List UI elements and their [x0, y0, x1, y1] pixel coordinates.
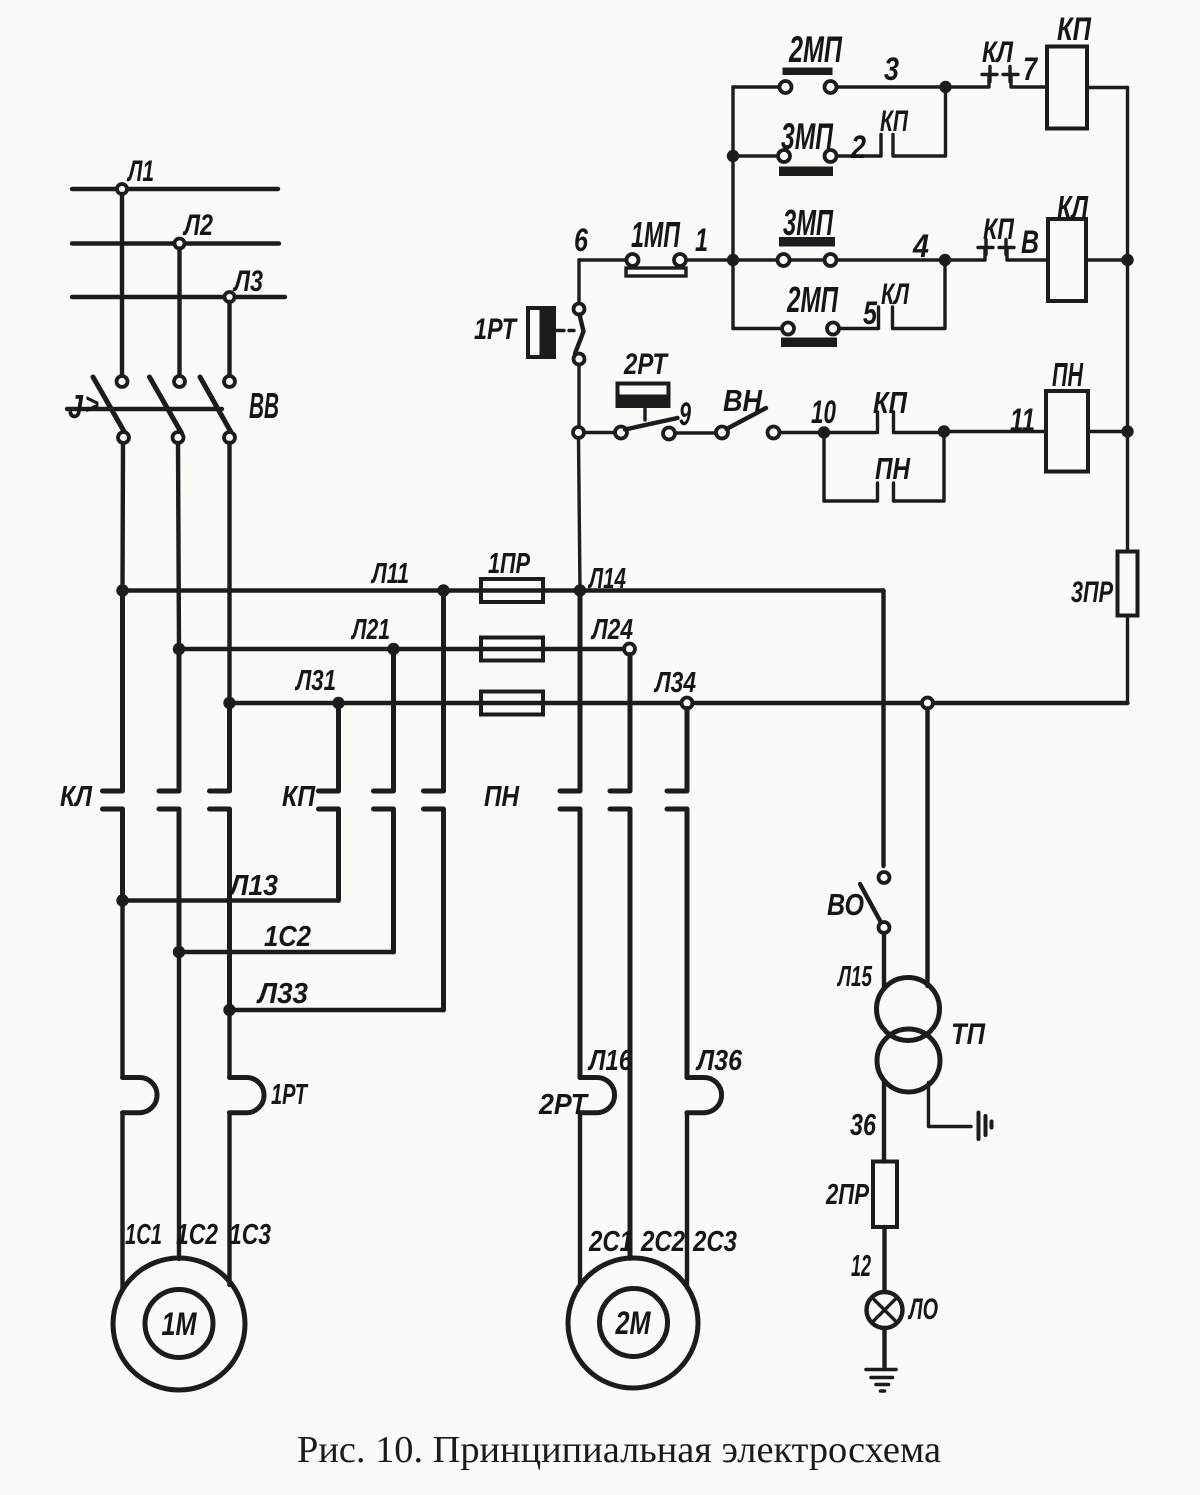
svg-text:КП: КП	[873, 385, 908, 420]
svg-text:Л3: Л3	[232, 265, 263, 298]
svg-text:3МП: 3МП	[783, 202, 834, 243]
transformer ТП secondary	[877, 1029, 940, 1092]
junction Л31/КП pole1	[332, 697, 344, 709]
pushbutton 1МП bar	[626, 268, 686, 276]
node row5 corner terminal	[573, 427, 584, 438]
junction Л13/pole1	[116, 894, 128, 906]
svg-text:10: 10	[811, 394, 836, 430]
breaker ВВ pole2 bottom contact	[173, 432, 184, 443]
contact КЛ row1	[946, 67, 1048, 88]
bus Л1	[72, 187, 278, 191]
wire Л13	[123, 898, 339, 902]
wire row1 east	[837, 85, 941, 88]
transformer ТП primary	[877, 978, 940, 1041]
switch ВО bottom terminal	[879, 922, 890, 933]
svg-text:1С3: 1С3	[229, 1219, 271, 1251]
svg-text:1РТ: 1РТ	[474, 313, 518, 346]
svg-text:ПН: ПН	[484, 781, 520, 813]
wire node6 down	[577, 260, 580, 304]
junction node 11	[938, 425, 950, 437]
junction node 3	[939, 81, 951, 93]
pushbutton 2МП row1 left contact	[780, 81, 792, 93]
svg-text:ВО: ВО	[827, 887, 864, 922]
svg-text:2РТ: 2РТ	[623, 348, 669, 381]
svg-text:5: 5	[863, 295, 878, 331]
svg-text:Л34: Л34	[653, 667, 696, 699]
wire Л31	[230, 701, 682, 705]
wire corner to Л14	[579, 438, 581, 591]
svg-text:4: 4	[912, 228, 929, 264]
wire Л33	[230, 1008, 444, 1012]
svg-text:ЛО: ЛО	[908, 1293, 938, 1326]
svg-text:Л24: Л24	[590, 614, 633, 646]
svg-text:Рис. 10. Принципиальная электр: Рис. 10. Принципиальная электросхема	[297, 1429, 941, 1471]
wire ВН to node10	[780, 431, 819, 434]
svg-text:1МП: 1МП	[631, 214, 681, 255]
chassis ground secondary	[979, 1113, 992, 1140]
svg-text:2С2: 2С2	[640, 1226, 685, 1258]
pushbutton 2МП row4 right contact	[827, 323, 839, 335]
junction 1С2/pole2	[173, 946, 185, 958]
contactor КП pole2 contact	[374, 649, 394, 952]
contact ПН self-hold	[824, 438, 944, 502]
svg-text:Л2: Л2	[182, 209, 213, 242]
contactor КЛ pole3 contact	[210, 703, 230, 1010]
fuse 3ПР	[1118, 552, 1138, 616]
svg-text:ПН: ПН	[875, 451, 910, 486]
node Л34	[682, 698, 693, 709]
svg-text:ТП: ТП	[951, 1018, 986, 1051]
wire pole3 to Л31	[227, 443, 231, 703]
wire node11 to ПН coil	[944, 430, 1046, 433]
svg-text:6: 6	[574, 222, 588, 258]
breaker ВВ pole3 blade	[200, 377, 232, 433]
ground symbol	[866, 1370, 896, 1392]
svg-text:2М: 2М	[615, 1305, 652, 1341]
motor 1М inner	[145, 1290, 213, 1358]
wire pole2 to Л21	[178, 443, 179, 649]
svg-text:Л16: Л16	[587, 1045, 632, 1077]
svg-text:1ПР: 1ПР	[488, 548, 530, 580]
breaker ВВ pole3 bottom contact	[224, 432, 235, 443]
contact КП row5	[824, 412, 944, 433]
contactor ПН pole1 contact	[560, 591, 580, 1078]
svg-text:Л31: Л31	[294, 665, 336, 697]
contactor КЛ pole1 contact	[103, 591, 123, 901]
wire КЛ coil to rail	[1086, 258, 1128, 261]
svg-text:2РТ: 2РТ	[538, 1089, 589, 1121]
svg-text:1М: 1М	[162, 1306, 198, 1342]
relay 2РТ heater box	[616, 384, 671, 408]
pushbutton 1МП left contact	[627, 254, 639, 266]
wire 1С3 to motor	[227, 1113, 231, 1285]
wire pole3 down	[227, 1010, 231, 1078]
wire ПН coil to rail	[1088, 430, 1128, 433]
wire row3 west	[579, 258, 627, 261]
wire Л21	[179, 647, 624, 651]
wire 1С2 to motor	[177, 952, 181, 1259]
svg-text:КП: КП	[880, 105, 909, 138]
motor 2М outer	[568, 1258, 698, 1388]
contactor ПН pole3 contact	[667, 709, 687, 1078]
svg-text:7: 7	[1023, 51, 1039, 87]
contactor КП pole1 contact	[319, 703, 339, 901]
svg-text:J: J	[68, 388, 84, 425]
fuse 1ПР pole2	[481, 638, 543, 661]
svg-text:36: 36	[850, 1107, 877, 1142]
wire row1 west	[733, 85, 780, 88]
wire 1С2 link	[179, 950, 394, 954]
fuse 2ПР	[873, 1162, 897, 1228]
svg-text:2С3: 2С3	[692, 1226, 737, 1258]
wire 2РТ to ВН	[675, 431, 716, 434]
svg-text:12: 12	[851, 1248, 871, 1283]
svg-text:Л13: Л13	[228, 870, 278, 902]
contact КЛ row4	[839, 266, 945, 329]
wire МП column	[731, 87, 734, 329]
svg-text:3: 3	[884, 51, 899, 87]
wire Л34 to 3ПР	[933, 701, 1128, 705]
pushbutton 2МП row4 left contact	[782, 323, 794, 335]
thermal contact 2РТ left terminal	[615, 427, 627, 439]
node Л14	[574, 584, 586, 596]
svg-text:1: 1	[695, 222, 708, 258]
svg-text:1С2: 1С2	[176, 1219, 218, 1251]
svg-text:КЛ: КЛ	[1057, 189, 1089, 226]
wire Л1 drop	[120, 194, 124, 376]
svg-text:Л14: Л14	[588, 563, 626, 595]
wire Л3 drop	[227, 302, 231, 376]
svg-text:КЛ: КЛ	[60, 781, 93, 813]
breaker ВВ trip bar	[67, 407, 222, 411]
svg-text:Л1: Л1	[127, 155, 154, 188]
junction row2	[727, 150, 739, 162]
wire right rail	[1126, 88, 1129, 552]
wire pole1 to Л11	[120, 443, 125, 591]
svg-text:1С1: 1С1	[125, 1219, 162, 1251]
wire КП coil to rail	[1087, 86, 1128, 89]
svg-text:2: 2	[850, 129, 866, 165]
contact КП row2	[837, 93, 946, 156]
svg-text:Л15: Л15	[837, 961, 873, 993]
junction pole1/Л11	[116, 584, 128, 596]
contactor КЛ pole2 contact	[159, 649, 179, 952]
coil ПН	[1046, 391, 1088, 472]
wire node 36	[882, 1080, 886, 1162]
fuse 1ПР pole1	[481, 579, 543, 602]
svg-text:КЛ: КЛ	[982, 36, 1014, 69]
breaker ВВ pole1 top contact	[117, 376, 128, 387]
thermal contact 1РТ top terminal	[574, 304, 585, 315]
pushbutton 3МП row2 right contact	[825, 150, 837, 162]
contactor ПН pole2 contact	[610, 655, 630, 1259]
pushbutton 3МП row2 bar	[779, 167, 833, 177]
wire lamp to ground	[882, 1328, 886, 1369]
thermal contact 2РТ right terminal	[663, 428, 675, 440]
pushbutton 2МП row4 bar	[781, 338, 837, 348]
node Л24	[624, 644, 635, 655]
wire ВО to ТП	[882, 933, 886, 989]
wire pole1 down	[120, 901, 124, 1078]
svg-text:3ПР: 3ПР	[1071, 576, 1114, 609]
terminal Л1	[117, 184, 127, 194]
junction rail/КЛ coil	[1121, 254, 1133, 266]
pushbutton 2МП row1 right contact	[825, 81, 837, 93]
coil КЛ	[1048, 219, 1086, 301]
svg-text:Л11: Л11	[371, 558, 409, 590]
junction pole2/Л21	[173, 643, 185, 655]
junction node 10	[818, 426, 830, 438]
junction Л11/КП pole3	[437, 584, 449, 596]
svg-text:2МП: 2МП	[786, 279, 838, 320]
wire Л14 down to ВО	[881, 591, 885, 867]
svg-text:Л33: Л33	[256, 978, 308, 1010]
bus Л3	[72, 295, 285, 299]
breaker ВВ pole1 bottom contact	[118, 432, 129, 443]
svg-text:1С2: 1С2	[264, 921, 311, 953]
wire 2С3 to motor	[685, 1113, 689, 1288]
svg-text:КП: КП	[1057, 11, 1092, 47]
svg-text:3МП: 3МП	[781, 116, 834, 157]
svg-text:11: 11	[1010, 402, 1035, 438]
svg-text:КП: КП	[282, 781, 316, 813]
thermal contact 1РТ blade	[575, 315, 584, 354]
wire row5 to 2РТ	[584, 431, 616, 434]
wire Л11	[123, 588, 581, 592]
switch ВН right terminal	[768, 427, 780, 439]
svg-text:2МП: 2МП	[788, 29, 843, 70]
switch ВО blade	[860, 884, 881, 923]
switch ВН left terminal	[716, 427, 728, 439]
breaker ВВ pole3 top contact	[224, 376, 235, 387]
terminal Л3	[225, 292, 235, 302]
wire 1С1 to motor	[120, 1113, 124, 1290]
wire tap down to ТП	[925, 709, 929, 987]
relay 2РТ dash	[643, 409, 646, 420]
thermal 2РТ heater pole3	[687, 1078, 722, 1113]
relay 1РТ heater box	[528, 308, 554, 357]
switch ВО top terminal	[879, 872, 890, 883]
svg-text:9: 9	[679, 396, 691, 432]
wire row4 west	[733, 327, 782, 330]
breaker ВВ pole2 blade	[150, 377, 182, 433]
wire row2 west	[733, 154, 778, 157]
junction rail/ПН coil	[1121, 425, 1133, 437]
thermal 1РТ heater pole3	[230, 1078, 265, 1113]
svg-text:>: >	[85, 388, 99, 421]
svg-text:2С1: 2С1	[588, 1226, 633, 1258]
svg-text:ПН: ПН	[1052, 356, 1084, 393]
thermal contact 1РТ bottom terminal	[574, 354, 585, 365]
svg-text:КП: КП	[983, 213, 1015, 246]
pushbutton 3МП row3 left contact	[778, 254, 790, 266]
motor 2М inner	[600, 1289, 668, 1357]
pushbutton 3МП row3 right contact	[825, 254, 837, 266]
svg-text:В: В	[1021, 224, 1039, 260]
switch ВН blade	[727, 408, 767, 429]
breaker ВВ pole2 top contact	[174, 376, 185, 387]
wire Л2 drop	[177, 249, 181, 376]
fuse 1ПР pole3	[481, 692, 543, 715]
pushbutton 3МП row3 bar	[779, 237, 835, 247]
coil КП	[1047, 47, 1087, 129]
motor 1М outer	[113, 1258, 245, 1390]
junction node 4	[939, 254, 951, 266]
contact КП row3	[945, 240, 1048, 261]
contactor КП pole3 contact	[424, 591, 444, 1011]
svg-text:КЛ: КЛ	[881, 278, 910, 311]
pushbutton 1МП right contact	[674, 254, 686, 266]
wire Л34 east	[693, 701, 923, 705]
svg-text:Л21: Л21	[351, 614, 390, 646]
junction Л33/pole3	[223, 1004, 235, 1016]
junction pole3/Л31	[223, 697, 235, 709]
wire row3 mid	[686, 258, 940, 261]
svg-text:1РТ: 1РТ	[271, 1079, 309, 1111]
wire 2ПР to lamp	[882, 1227, 886, 1292]
bus Л2	[72, 241, 279, 245]
svg-text:2ПР: 2ПР	[825, 1179, 869, 1211]
junction Л21/КП pole2	[387, 643, 399, 655]
junction row3 МП column	[727, 254, 739, 266]
wire 2С1 to motor	[578, 1113, 582, 1286]
thermal 1РТ heater pole1	[123, 1078, 158, 1113]
wire Л14 east	[580, 588, 884, 592]
wire self-hold down	[822, 439, 825, 502]
wire 1РТ to row5	[577, 365, 580, 427]
relay 1РТ dashes	[557, 329, 574, 332]
terminal Л2	[175, 239, 185, 249]
pushbutton 2МП row1 bar	[783, 68, 833, 76]
wire secondary right to chassis	[929, 1083, 972, 1127]
wire 3ПР to Л34	[1126, 616, 1129, 704]
svg-text:Л36: Л36	[695, 1045, 742, 1077]
lamp ЛО	[867, 1292, 903, 1328]
svg-text:ВВ: ВВ	[249, 385, 279, 426]
breaker ВВ pole1 blade	[93, 377, 125, 433]
node transformer tap	[922, 698, 933, 709]
svg-text:ВН: ВН	[723, 383, 763, 418]
thermal contact 2РТ blade	[625, 418, 678, 430]
thermal 2РТ heater pole1	[580, 1078, 615, 1113]
pushbutton 3МП row2 left contact	[778, 150, 790, 162]
